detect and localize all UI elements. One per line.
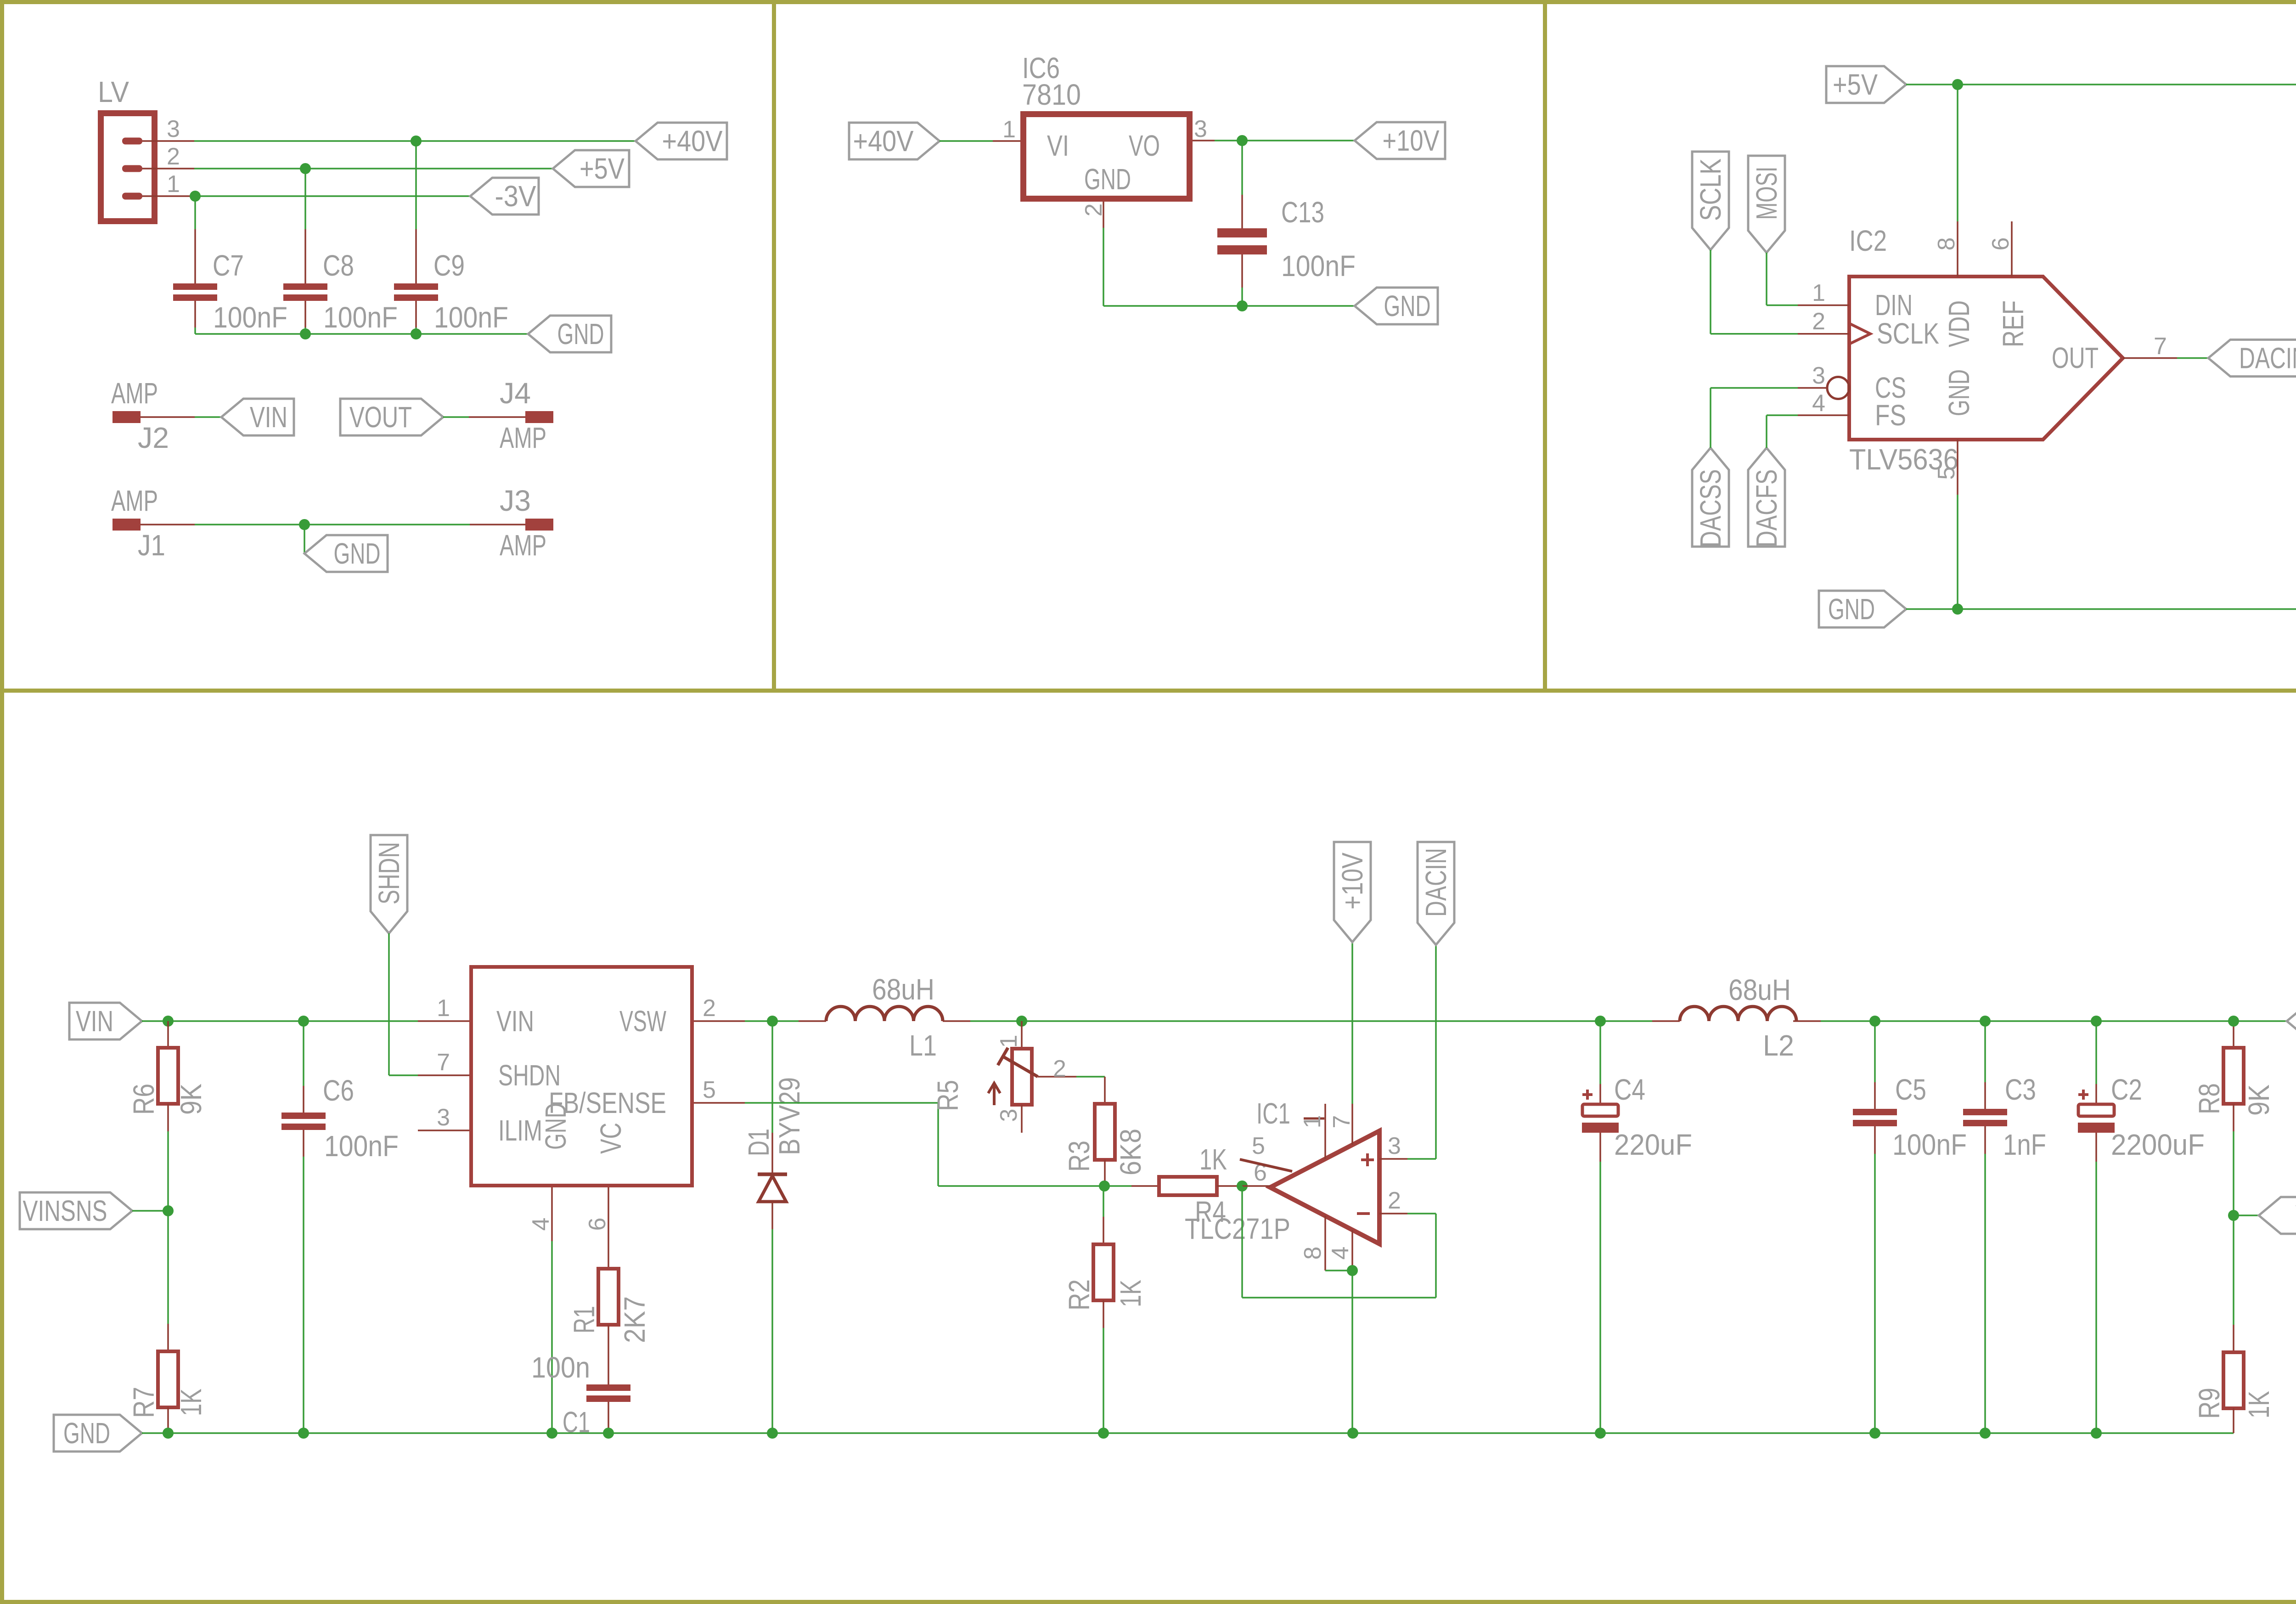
pin 8 of IC2 (VDD) — [1933, 221, 1960, 277]
flag GND (regulator) — [1355, 288, 1438, 324]
flag VOUTSNS (divider) — [2259, 1197, 2296, 1234]
wire C7 to -3V — [194, 196, 196, 229]
svg-text:6: 6 — [584, 1218, 611, 1231]
node junction GND / C3 — [1980, 1428, 1991, 1439]
svg-text:C13: C13 — [1281, 196, 1324, 229]
svg-text:6K8: 6K8 — [1114, 1129, 1147, 1175]
svg-text:5: 5 — [1252, 1133, 1265, 1159]
svg-text:R7: R7 — [127, 1387, 160, 1418]
flag VIN — [221, 399, 294, 435]
node junction C8 / GND — [300, 328, 311, 339]
resistor R6 — [127, 1021, 208, 1131]
pin 3 of IC6 — [1193, 116, 1215, 142]
svg-text:1: 1 — [996, 1035, 1022, 1048]
node junction GND / C2 — [2091, 1428, 2102, 1439]
wire stub to GND flag — [304, 525, 305, 553]
svg-text:2: 2 — [1080, 203, 1107, 217]
connector J3 AMP pad — [500, 484, 553, 562]
wire OUT to DACIN — [2177, 357, 2208, 359]
capacitor C4 220uF — [1582, 1021, 1692, 1433]
inductor L1 68uH — [799, 973, 970, 1062]
node junction +40V / C9 — [411, 136, 422, 147]
resistor R9 — [2193, 1215, 2275, 1433]
svg-text:GND: GND — [557, 317, 604, 350]
svg-text:8: 8 — [1933, 237, 1960, 251]
svg-text:R8: R8 — [2193, 1083, 2226, 1114]
node junction GND / C5 — [1869, 1428, 1880, 1439]
wire SHDN to pin 7 — [389, 933, 418, 1075]
svg-text:L1: L1 — [909, 1029, 937, 1062]
svg-text:+40V: +40V — [853, 124, 914, 158]
svg-text:VC: VC — [594, 1123, 627, 1154]
svg-text:7: 7 — [2154, 333, 2167, 360]
node junction VIN / R6 — [163, 1016, 174, 1027]
svg-text:J4: J4 — [500, 377, 531, 410]
wire VOUT to J4 — [443, 416, 469, 418]
connector J4 AMP pad — [500, 377, 553, 454]
wire C8 to +5V — [304, 169, 306, 229]
flag -3V — [470, 178, 539, 215]
svg-text:VOUT: VOUT — [349, 401, 412, 434]
svg-text:68uH: 68uH — [1728, 973, 1791, 1006]
wire L2 to VOUT — [1821, 1020, 2287, 1022]
diode D1 BYV29 — [742, 1021, 806, 1433]
node junction VINSNS — [163, 1205, 174, 1216]
node junction VOUT / R8 — [2228, 1016, 2239, 1027]
svg-text:C9: C9 — [433, 249, 465, 282]
wire R8 to VOUTSNS — [2233, 1131, 2234, 1215]
svg-text:6: 6 — [1987, 237, 2014, 251]
node junction C9 / GND — [411, 328, 422, 339]
svg-text:GND: GND — [63, 1417, 110, 1450]
pin 3 of IC1 (+ input) — [1379, 1133, 1407, 1159]
svg-text:3: 3 — [437, 1104, 450, 1131]
wire J2 to VIN — [195, 416, 221, 418]
wire J1 to J3 (GND net) — [195, 524, 470, 525]
pin 1 of IC2 (DIN) — [1798, 280, 1849, 306]
wire DACIN to + input — [1407, 945, 1436, 1159]
node junction GND / IC1 GND — [1347, 1428, 1358, 1439]
svg-text:2: 2 — [167, 143, 180, 170]
svg-text:TLC271P: TLC271P — [1185, 1212, 1290, 1245]
pin 7 of regulator (SHDN) — [418, 1049, 469, 1076]
svg-text:D1: D1 — [742, 1129, 775, 1156]
flag DACIN (op-amp) — [1418, 842, 1454, 945]
pin 2 of IC6 — [1080, 202, 1107, 228]
flag GND (supply) — [54, 1415, 142, 1452]
svg-text:R5: R5 — [931, 1080, 964, 1111]
pin 6 of IC1 (OUT) — [1242, 1159, 1270, 1186]
svg-text:AMP: AMP — [111, 484, 158, 517]
svg-text:100nF: 100nF — [324, 1130, 399, 1163]
node junction VOUT / C2 — [2091, 1016, 2102, 1027]
resistor R2 — [1063, 1186, 1147, 1433]
svg-text:7: 7 — [437, 1049, 450, 1076]
wire GND rail — [142, 1432, 2234, 1434]
wire IC6 VO to +10V — [1215, 140, 1355, 141]
wire VINSNS to node — [132, 1210, 168, 1212]
svg-text:1: 1 — [1299, 1115, 1326, 1129]
node junction VSW / D1 — [767, 1016, 778, 1027]
node junction GND / C6 — [298, 1428, 309, 1439]
node junction GND / C4 — [1595, 1428, 1606, 1439]
pin wire J4 — [469, 416, 525, 418]
wire +5V rail — [1906, 84, 2296, 85]
resistor R3 — [1063, 1077, 1147, 1186]
connector J1 AMP pad — [111, 484, 165, 562]
svg-text:1: 1 — [1002, 116, 1016, 143]
svg-text:220uF: 220uF — [1614, 1128, 1692, 1161]
svg-text:2: 2 — [1388, 1187, 1401, 1214]
svg-text:5: 5 — [1933, 467, 1960, 480]
capacitor C1 — [531, 1351, 630, 1439]
pin 2 of LV — [142, 143, 194, 170]
pin 4 of IC1 (V-) — [1327, 1230, 1354, 1271]
pin 2 of IC1 (- input) — [1379, 1187, 1407, 1214]
flag DACFS — [1748, 448, 1785, 548]
pin 1 of regulator (VIN) — [418, 995, 469, 1022]
switching regulator IC box — [471, 967, 692, 1186]
wire DACFS to pin 4 — [1767, 415, 1798, 448]
svg-text:DACSS: DACSS — [1694, 469, 1727, 548]
wire L1 to output — [970, 1020, 1652, 1022]
pin 1 of IC1 unconnected — [1299, 1104, 1326, 1159]
svg-text:GND: GND — [1084, 163, 1131, 196]
node junction VIN / C6 — [298, 1016, 309, 1027]
node junction FB divider — [1099, 1180, 1110, 1192]
svg-text:DACFS: DACFS — [1750, 469, 1783, 548]
pin 1 of LV — [142, 171, 194, 198]
svg-text:2: 2 — [1053, 1056, 1066, 1082]
node junction -3V / C7 — [190, 191, 201, 202]
svg-text:SHDN: SHDN — [372, 842, 405, 904]
svg-text:4: 4 — [528, 1218, 554, 1231]
resistor R1 — [568, 1241, 651, 1352]
wire SCLK to pin 2 — [1711, 250, 1798, 334]
capacitor C8 — [283, 229, 398, 334]
wire GND bus of caps — [195, 328, 528, 334]
resistor R4 — [1104, 1143, 1242, 1228]
svg-text:+10V: +10V — [1383, 124, 1440, 157]
pin 7 of IC1 (V+) — [1328, 1104, 1355, 1145]
svg-text:100nF: 100nF — [213, 301, 287, 334]
node junction C13 / GND — [1237, 300, 1248, 311]
svg-text:100nF: 100nF — [323, 301, 398, 334]
node junction L1 / R5 — [1016, 1016, 1027, 1027]
pin 5 of regulator (FB/SENSE) — [694, 1077, 745, 1103]
svg-text:7: 7 — [1328, 1115, 1355, 1129]
svg-text:GND: GND — [1384, 289, 1431, 322]
capacitor C13 — [1217, 141, 1356, 306]
svg-text:C3: C3 — [2005, 1073, 2036, 1106]
svg-text:9K: 9K — [174, 1084, 208, 1115]
node junction GND stub — [299, 519, 310, 530]
svg-text:3: 3 — [167, 116, 180, 142]
svg-text:IC1: IC1 — [1256, 1097, 1290, 1130]
flag DACSS — [1692, 448, 1729, 548]
svg-text:2200uF: 2200uF — [2111, 1128, 2205, 1161]
node junction R4 / op-amp — [1237, 1180, 1248, 1192]
wire +10V to IC1 V+ — [1351, 942, 1353, 1104]
connector LV — [98, 75, 155, 221]
svg-text:+5V: +5V — [1833, 68, 1878, 101]
svg-text:7810: 7810 — [1022, 78, 1081, 111]
op-amp IC1 TLC271P — [1185, 1097, 1379, 1245]
svg-text:1K: 1K — [1114, 1280, 1147, 1307]
svg-text:C2: C2 — [2111, 1073, 2142, 1106]
svg-text:SCLK: SCLK — [1877, 317, 1939, 350]
svg-text:100nF: 100nF — [1892, 1128, 1967, 1161]
svg-text:LV: LV — [98, 75, 129, 108]
svg-text:SCLK: SCLK — [1694, 158, 1727, 221]
svg-text:68uH: 68uH — [872, 973, 934, 1006]
svg-text:+5V: +5V — [580, 152, 625, 185]
svg-text:R9: R9 — [2193, 1388, 2226, 1419]
svg-text:3: 3 — [1812, 362, 1825, 389]
svg-text:+40V: +40V — [662, 124, 723, 158]
resistor R8 — [2193, 1021, 2275, 1131]
svg-text:VDD: VDD — [1942, 300, 1975, 347]
svg-text:VO: VO — [1129, 129, 1160, 162]
wire VIN rail — [142, 1020, 418, 1022]
svg-text:1K: 1K — [1199, 1143, 1227, 1176]
svg-text:+10V: +10V — [1336, 853, 1369, 909]
svg-text:R6: R6 — [127, 1084, 160, 1115]
flag +10V — [1355, 122, 1445, 159]
inductor L2 68uH — [1652, 973, 1821, 1062]
svg-text:J1: J1 — [138, 529, 165, 562]
capacitor C9 — [394, 229, 508, 334]
wire VOUTSNS stub — [2234, 1214, 2259, 1216]
wire R5 wiper to R3 — [1076, 1076, 1105, 1078]
flag VOUT — [2287, 1003, 2296, 1039]
svg-text:4: 4 — [1327, 1247, 1354, 1260]
wire IC6 GND down — [1103, 228, 1355, 306]
pin 6 of IC2 (REF) unconnected — [1987, 221, 2014, 277]
pin 7 of IC2 (OUT) — [2123, 333, 2177, 360]
svg-text:L2: L2 — [1763, 1029, 1794, 1062]
wire C9 to +40V — [415, 141, 417, 229]
node junction GND / IC2 — [1952, 604, 1963, 615]
pin 2 of IC2 (SCLK) — [1798, 308, 1849, 335]
flag SCLK (to DAC) — [1692, 152, 1729, 250]
flag +40V (regulator input) — [849, 123, 940, 159]
node junction VOUT / C5 — [1869, 1016, 1880, 1027]
svg-text:ILIM: ILIM — [498, 1114, 542, 1147]
svg-text:1: 1 — [1812, 280, 1825, 306]
node junction GND / R7 — [163, 1428, 174, 1439]
node junction GND / IC GND — [546, 1428, 557, 1439]
svg-text:VIN: VIN — [250, 401, 287, 434]
wire R6 to VINSNS — [167, 1131, 169, 1211]
svg-text:VINSNS: VINSNS — [23, 1194, 107, 1227]
svg-text:J3: J3 — [500, 484, 531, 517]
pin 5 of IC2 (GND) — [1933, 440, 1960, 495]
pin 3 of LV — [142, 116, 194, 142]
capacitor C5 100nF — [1853, 1021, 1967, 1433]
svg-text:VIN: VIN — [76, 1005, 113, 1038]
svg-text:-3V: -3V — [495, 180, 536, 213]
svg-text:2: 2 — [703, 995, 716, 1022]
flag +40V — [636, 123, 727, 159]
flag VIN — [69, 1003, 142, 1039]
wire FB/SENSE to divider — [745, 1103, 1104, 1186]
wire net +5V — [194, 168, 553, 169]
svg-text:1K: 1K — [2242, 1391, 2275, 1418]
svg-text:3: 3 — [996, 1109, 1022, 1122]
svg-text:AMP: AMP — [111, 377, 158, 410]
wire net +40V — [194, 140, 636, 142]
svg-text:BYV29: BYV29 — [773, 1077, 806, 1155]
svg-text:AMP: AMP — [500, 421, 546, 454]
pin wire J2 — [141, 416, 195, 418]
svg-text:C6: C6 — [323, 1074, 354, 1107]
node junction GND / C1 — [603, 1428, 614, 1439]
capacitor C3 1nF — [1963, 1021, 2046, 1433]
svg-text:VSW: VSW — [619, 1005, 666, 1038]
flag +10V — [1334, 842, 1371, 942]
node junction VOUT / C3 — [1980, 1016, 1991, 1027]
flag VOUT — [340, 399, 443, 435]
capacitor C7 — [173, 229, 287, 334]
wire MOSI to pin 1 — [1767, 253, 1798, 305]
wire +40V to IC6 pin 1 — [940, 140, 993, 142]
node junction VOUT / C4 — [1595, 1016, 1606, 1027]
trimmer R5 — [931, 1021, 1076, 1133]
wire IC2 GND to GND rail — [1957, 495, 1958, 609]
svg-text:R1: R1 — [568, 1306, 601, 1333]
flag +5V — [553, 150, 629, 187]
pin 1 of IC6 — [993, 116, 1020, 143]
pin 4 of regulator (GND) — [528, 1187, 554, 1433]
pin 5 of IC1 unconnected — [1240, 1133, 1292, 1171]
svg-text:8: 8 — [1300, 1247, 1326, 1260]
wire feedback loop — [1242, 1186, 1436, 1298]
node junction VOUTSNS — [2228, 1210, 2239, 1221]
flag DACIN — [2208, 340, 2296, 377]
node junction +5V / IC2 VDD — [1952, 79, 1963, 90]
wire net -3V — [194, 195, 470, 197]
svg-text:1K: 1K — [174, 1389, 208, 1416]
svg-text:GND: GND — [1828, 593, 1875, 626]
op-amp style DAC IC2 TLV5636 — [1849, 224, 2123, 476]
capacitor C2 2200uF — [2078, 1021, 2205, 1433]
svg-text:2K7: 2K7 — [618, 1296, 651, 1343]
svg-text:OUT: OUT — [2052, 341, 2099, 374]
svg-text:100n: 100n — [531, 1351, 590, 1384]
node junction VO / C13 — [1237, 135, 1248, 146]
svg-text:C7: C7 — [213, 249, 244, 282]
svg-text:MOSI: MOSI — [1750, 167, 1783, 220]
flag SHDN — [371, 835, 407, 933]
svg-text:AMP: AMP — [500, 529, 546, 562]
svg-text:J2: J2 — [138, 421, 169, 454]
svg-text:VIN: VIN — [496, 1005, 534, 1038]
pin 3 of regulator (ILIM) unconnected — [418, 1104, 469, 1131]
svg-text:100nF: 100nF — [1281, 249, 1356, 282]
svg-text:100nF: 100nF — [434, 301, 508, 334]
flag GND (J1/J3) — [304, 535, 388, 572]
voltage regulator IC6 7810 — [1022, 51, 1190, 199]
wire DACSS to pin 3 — [1711, 388, 1798, 448]
pin 8 of IC1 — [1300, 1216, 1326, 1271]
svg-text:GND: GND — [334, 537, 381, 570]
flag MOSI (to DAC) — [1748, 156, 1785, 253]
connector J2 AMP pad — [111, 377, 169, 454]
pin 2 of regulator (VSW) — [694, 995, 745, 1022]
wire IC1 pins 8/4 to GND — [1325, 1271, 1352, 1433]
svg-text:9K: 9K — [2242, 1084, 2275, 1116]
svg-text:C1: C1 — [563, 1406, 590, 1439]
svg-text:C4: C4 — [1614, 1073, 1645, 1106]
pin 4 of IC2 (FS) — [1798, 390, 1849, 417]
svg-text:GND: GND — [1942, 369, 1975, 416]
node junction GND / D1 — [767, 1428, 778, 1439]
svg-text:FS: FS — [1875, 399, 1906, 432]
pin 3 of IC2 (CS) with bubble — [1798, 362, 1849, 399]
svg-text:C5: C5 — [1895, 1073, 1926, 1106]
pin 6 of regulator (VC) — [584, 1187, 611, 1241]
svg-text:DACIN: DACIN — [1419, 848, 1452, 917]
svg-text:REF: REF — [1997, 300, 2030, 347]
resistor R7 — [127, 1211, 208, 1433]
svg-text:R3: R3 — [1063, 1141, 1096, 1172]
capacitor C6 — [281, 1021, 399, 1433]
flag GND (capacitors) — [528, 316, 611, 352]
svg-text:3: 3 — [1388, 1133, 1401, 1159]
pin wire J1 — [141, 524, 195, 525]
svg-text:1: 1 — [167, 171, 180, 198]
svg-text:3: 3 — [1194, 116, 1207, 142]
wire VDD to +5V — [1957, 85, 1958, 221]
pin wire J3 — [470, 524, 525, 525]
svg-text:5: 5 — [703, 1077, 716, 1103]
svg-text:DACIN: DACIN — [2239, 342, 2296, 375]
svg-text:2: 2 — [1812, 308, 1825, 335]
flag +5V (DAC/ADC) — [1826, 66, 1906, 103]
svg-text:R2: R2 — [1063, 1279, 1096, 1310]
node junction +5V / C8 — [300, 163, 311, 174]
svg-text:1: 1 — [437, 995, 450, 1022]
svg-text:VI: VI — [1047, 129, 1069, 162]
svg-text:IC2: IC2 — [1849, 224, 1887, 257]
wire VSW node — [745, 1020, 799, 1022]
svg-text:1nF: 1nF — [2003, 1128, 2046, 1161]
node junction IC1 pin4/8 — [1347, 1265, 1358, 1276]
flag GND (DAC/ADC) — [1819, 591, 1906, 627]
wire GND rail — [1906, 608, 2296, 610]
svg-text:C8: C8 — [323, 249, 354, 282]
flag VINSNS — [20, 1192, 132, 1229]
node junction GND / R2 — [1098, 1428, 1109, 1439]
svg-text:GND: GND — [539, 1103, 572, 1150]
svg-text:4: 4 — [1812, 390, 1825, 417]
